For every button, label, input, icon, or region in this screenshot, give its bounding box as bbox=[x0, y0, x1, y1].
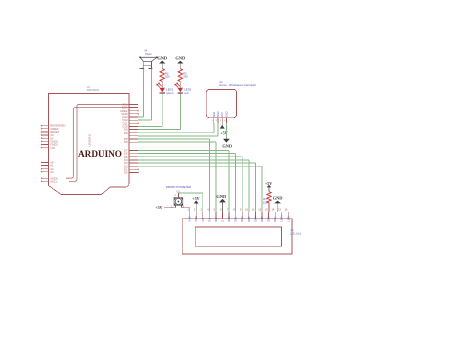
svg-text:DB6: DB6 bbox=[267, 216, 271, 222]
svg-text:D8: D8 bbox=[124, 131, 128, 135]
svg-text:SIG1: SIG1 bbox=[212, 111, 216, 117]
svg-text:VO: VO bbox=[201, 218, 205, 222]
svg-text:A3: A3 bbox=[50, 170, 54, 174]
svg-text:Grove - IR Distance Interrupte: Grove - IR Distance Interrupter bbox=[219, 83, 256, 87]
svg-text:RS: RS bbox=[207, 218, 211, 222]
svg-text:R2: R2 bbox=[165, 71, 169, 75]
svg-text:R3: R3 bbox=[183, 71, 187, 75]
svg-text:D0: D0 bbox=[124, 171, 128, 175]
svg-text:DB2: DB2 bbox=[240, 216, 244, 222]
svg-text:DB0: DB0 bbox=[227, 216, 231, 222]
svg-text:VSS: VSS bbox=[188, 216, 192, 221]
svg-text:LCD_16x2: LCD_16x2 bbox=[290, 232, 302, 235]
svg-text:ASCL: ASCL bbox=[50, 179, 58, 183]
svg-text:ARDUINO: ARDUINO bbox=[78, 149, 122, 159]
svg-text:GND: GND bbox=[224, 111, 228, 117]
svg-text:GND: GND bbox=[216, 194, 226, 199]
svg-text:DB5: DB5 bbox=[260, 216, 264, 222]
svg-text:LED-: LED- bbox=[286, 216, 290, 222]
svg-text:GND: GND bbox=[157, 56, 167, 61]
svg-text:330: 330 bbox=[183, 75, 188, 79]
svg-text:D8: D8 bbox=[124, 140, 128, 144]
svg-text:E: E bbox=[221, 220, 225, 222]
svg-text:Piezo: Piezo bbox=[145, 52, 152, 56]
svg-text:red: red bbox=[184, 91, 189, 95]
svg-text:RW: RW bbox=[214, 217, 218, 222]
svg-text:+5V: +5V bbox=[155, 205, 162, 210]
svg-text:LED+: LED+ bbox=[280, 215, 284, 222]
svg-text:R1: R1 bbox=[263, 197, 267, 201]
svg-text:DB4: DB4 bbox=[253, 216, 257, 222]
svg-text:+5V: +5V bbox=[192, 196, 199, 201]
svg-text:ARDUINO1: ARDUINO1 bbox=[87, 89, 100, 92]
svg-text:GND: GND bbox=[222, 144, 232, 149]
svg-text:VCC: VCC bbox=[220, 112, 224, 118]
svg-text:green: green bbox=[166, 91, 174, 95]
svg-text:DB1: DB1 bbox=[234, 216, 238, 222]
svg-text:330: 330 bbox=[165, 75, 170, 79]
svg-text:DB3: DB3 bbox=[247, 216, 251, 222]
svg-text:+5V: +5V bbox=[265, 181, 272, 186]
svg-text:RM065 POTMETER: RM065 POTMETER bbox=[166, 185, 191, 189]
svg-text:DB7: DB7 bbox=[273, 216, 277, 222]
svg-text:VDD: VDD bbox=[194, 216, 198, 222]
svg-text:SIG2: SIG2 bbox=[216, 111, 220, 117]
svg-text:GND: GND bbox=[175, 56, 185, 61]
svg-text:VIN: VIN bbox=[50, 146, 55, 150]
svg-text:UNO(R3): UNO(R3) bbox=[88, 134, 92, 147]
svg-text:GND: GND bbox=[273, 196, 283, 201]
svg-text:220: 220 bbox=[263, 200, 268, 204]
